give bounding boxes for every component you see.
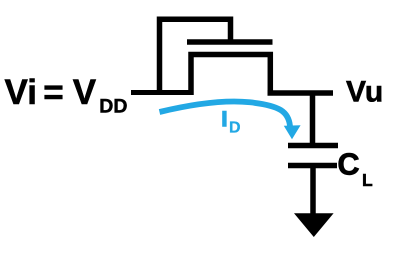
label Vi = VDD	[5, 73, 128, 118]
label ID	[222, 108, 241, 137]
label CL	[338, 147, 374, 190]
wire: gate loop (up, over, down to gate plate)	[160, 19, 231, 95]
wire: output node to Vu	[268, 90, 334, 96]
svg-text:D: D	[229, 120, 241, 137]
ground symbol (filled down triangle)	[294, 213, 334, 237]
wire: capacitor to ground	[310, 166, 316, 216]
wire: input wire from VDD label to transistor	[131, 90, 191, 95]
wire: output node down to capacitor	[310, 93, 316, 146]
svg-text:V: V	[73, 73, 97, 112]
svg-text:I: I	[222, 108, 228, 131]
capacitor CL: bottom plate	[288, 163, 337, 169]
current arrow ID (blue curved arrow)	[160, 102, 301, 140]
svg-text:DD: DD	[99, 96, 127, 118]
svg-text:C: C	[338, 147, 360, 181]
transistor M1: gate plate	[187, 39, 273, 45]
capacitor CL: top plate	[288, 143, 338, 149]
transistor M1: channel with source/drain legs	[191, 55, 270, 96]
svg-text:L: L	[362, 170, 373, 190]
svg-text:Vu: Vu	[346, 76, 383, 109]
svg-text:Vi: Vi	[5, 73, 37, 112]
svg-text:=: =	[43, 73, 63, 112]
